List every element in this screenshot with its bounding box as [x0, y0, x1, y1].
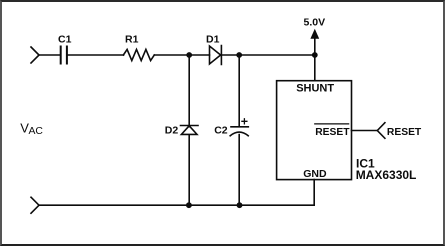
svg-text:C1: C1 — [58, 34, 72, 46]
node junction dot (bottom rail / D2) — [186, 202, 192, 208]
svg-text:5.0V: 5.0V — [304, 16, 326, 28]
svg-text:D2: D2 — [165, 124, 179, 136]
label IC1 — [356, 156, 375, 170]
pin label SHUNT — [296, 82, 334, 94]
input terminal top (AC input) — [31, 47, 39, 63]
wire: terminal to C1 — [39, 54, 61, 56]
label C1 — [58, 34, 72, 46]
capacitor C2 (polarized) — [230, 127, 248, 205]
svg-text:RESET: RESET — [315, 127, 350, 138]
svg-text:C2: C2 — [214, 124, 228, 136]
overline of RESET pin label — [315, 123, 349, 125]
svg-text:GND: GND — [303, 168, 327, 180]
input terminal bottom (AC return) — [31, 197, 39, 213]
wire: D2 branch vertical — [188, 55, 190, 125]
wire: 5.0V supply riser — [314, 38, 316, 55]
wire: D1 cathode to 5.0V node — [221, 54, 314, 56]
wire: bottom rail left — [39, 204, 189, 206]
capacitor C1 — [61, 47, 67, 64]
label D2 — [165, 124, 179, 136]
label 5.0V — [304, 16, 326, 28]
svg-text:SHUNT: SHUNT — [296, 82, 334, 94]
label RESET output — [387, 127, 422, 138]
label C2 — [214, 124, 228, 136]
wire: RESET pin out — [352, 130, 378, 132]
wire: GND pin to bottom rail — [189, 180, 314, 206]
plus sign of C2 — [242, 119, 247, 124]
svg-text:RESET: RESET — [387, 127, 422, 138]
node junction dot (5.0V / SHUNT) — [312, 52, 318, 58]
node junction dot (C2 tap) — [236, 52, 242, 58]
svg-text:MAX6330L: MAX6330L — [356, 168, 417, 182]
svg-text:R1: R1 — [125, 34, 139, 46]
label R1 — [125, 34, 139, 46]
pin label RESET (active low) — [315, 127, 350, 138]
svg-text:D1: D1 — [206, 34, 220, 46]
resistor R1 — [123, 49, 154, 60]
IC U1 box (MAX6330L) — [277, 81, 352, 180]
wire: R1 to D1 anode — [154, 54, 209, 56]
zener diode D2 — [181, 126, 199, 206]
label D1 — [206, 34, 220, 46]
wire: C1 to R1 — [68, 54, 124, 56]
node junction dot (bottom rail / C2) — [237, 202, 243, 208]
label MAX6330L — [356, 168, 417, 182]
node junction dot (D2 tap) — [186, 52, 192, 58]
pin label GND — [303, 168, 327, 180]
svg-text:AC: AC — [29, 126, 44, 137]
wire: C2 branch vertical — [238, 55, 240, 126]
power arrow 5.0V — [310, 29, 319, 39]
label VAC — [20, 121, 43, 137]
output terminal RESET — [377, 123, 385, 139]
wire: SHUNT pin — [314, 55, 316, 81]
diode D1 — [210, 46, 222, 65]
